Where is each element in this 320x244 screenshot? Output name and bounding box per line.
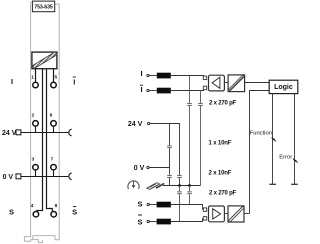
label S-bar (module) [72,207,77,217]
filter choke on I [157,73,171,79]
receiver input tab I [203,76,206,80]
svg-text:7: 7 [51,156,54,162]
wire: I-bar circle to filter [149,90,157,92]
node I terminal circle [147,74,149,76]
wire: 24V branch to 0V (1x10nF leg) [169,124,171,168]
svg-text:S: S [137,217,142,226]
wire: 0V leg down to shield rail [169,168,171,186]
node 0V terminal circle [147,166,149,168]
svg-text:24 V: 24 V [128,121,143,128]
capacitor C 270pF on S column [187,192,192,194]
terminal 8 [51,203,58,217]
wire: S filter to transmitter [171,205,203,210]
wire: block to terminal 5 [53,69,55,83]
wire: 0V to branch leg [149,167,169,169]
isolator U2 (galvanic isolation) [228,75,245,92]
wire: S-bar circle to filter [150,221,157,223]
svg-text:0 V: 0 V [3,174,14,181]
svg-text:2 x 10nF: 2 x 10nF [209,170,232,176]
24V power jumper contact [69,129,72,136]
svg-text:Function: Function [250,130,272,136]
wire: isolator output to Logic return [244,213,250,215]
svg-text:Logic: Logic [274,84,293,91]
capacitor column from I (270pF) [189,76,191,186]
wire: I filter to receiver [171,76,204,78]
node S terminal circle [147,203,149,205]
wire: shield rail [163,185,201,187]
svg-text:6: 6 [50,113,53,119]
wire: S-bar filter to transmitter [171,218,203,221]
svg-text:2: 2 [32,113,35,119]
wire: right pass-through (block to terminal 8) [47,69,53,212]
svg-text:753-635: 753-635 [34,4,53,10]
transmitter input tab S [203,208,206,212]
svg-text:5: 5 [54,74,57,80]
wire: I circle to filter [149,75,157,77]
terminal 4 [31,203,39,217]
svg-text:I: I [11,77,13,86]
chassis / shield symbol [147,183,164,190]
contact bar Error column [291,183,298,185]
wire: isolator to Logic [245,82,270,84]
Logic block [269,80,298,93]
capacitor column from I-bar (270pF) [200,91,202,186]
terminal 7 [51,156,57,176]
filter choke on S [157,202,171,208]
LED Error light arrows [293,158,298,162]
wire: receiver to isolator [224,82,228,84]
transmitter U3 (RS-485 driver) [209,206,225,222]
svg-text:1 x 10nF: 1 x 10nF [209,140,232,146]
transmitter input tab S-bar [203,217,206,221]
terminal 3 [32,156,39,176]
node I-bar terminal circle [147,89,149,91]
wire: 0V bus (module) [21,176,68,178]
filter choke on I-bar [157,88,171,94]
capacitor column shield to S (270pF) [189,186,191,205]
wire: 24V bus (module) [21,132,68,134]
capacitor C 270pF on I-bar column [198,104,203,106]
0V power jumper contact [69,173,72,180]
wire: Logic to S-channel isolator (return path) [250,91,270,214]
0V field terminal square [16,174,21,179]
svg-text:0 V: 0 V [134,165,145,172]
wire: 24V rail [150,124,180,186]
capacitor C 270pF on S-bar column [177,192,182,194]
terminal 1 [31,74,38,87]
filter choke on S-bar [157,219,171,225]
junction dot shield/0V leg [188,184,191,187]
svg-text:8: 8 [55,203,58,209]
receiver input tab I-bar [203,86,206,90]
terminal 5 [51,74,58,87]
svg-text:I: I [140,85,142,94]
terminal 6 [50,113,57,133]
svg-text:24 V: 24 V [2,130,17,137]
wire: transmitter to isolator [224,213,228,215]
LED Function light arrows [271,137,276,141]
svg-text:2 x 270 pF: 2 x 270 pF [209,191,237,197]
capacitor C 270pF on I column [187,104,192,106]
wire: left pass-through (block to terminal 4) [37,69,43,212]
svg-text:2 x 270 pF: 2 x 270 pF [209,100,237,106]
capacitor 10nF 0V-to-shield [167,176,172,178]
label I-bar (schematic) [140,85,143,94]
wire: I-bar filter to receiver [171,88,204,91]
wire: S circle to filter [150,204,157,206]
junction dot shield/24V leg [178,184,181,187]
receiver U1 (RS-485 input amplifier) [209,75,225,91]
LED column Function [272,94,274,185]
label S-bar (schematic) [137,215,142,226]
contact bar Function column [269,183,276,185]
capacitor 10nF 24V-to-shield [177,176,182,178]
svg-text:3: 3 [32,156,35,162]
terminal 2 [32,113,39,133]
svg-text:4: 4 [31,203,34,209]
module order label 753-635 [32,1,54,12]
wire: block to terminal 1 [35,69,37,83]
capacitor column shield to S-bar (270pF) [179,186,181,222]
module outline with DIN-rail foot [24,2,59,242]
isolator U4 (galvanic isolation) [228,206,244,222]
power supply block (module electronics) [32,52,57,69]
LED column Error [294,94,296,185]
svg-text:1: 1 [31,74,34,80]
svg-text:S: S [9,208,14,217]
svg-text:I: I [73,78,75,87]
24V field terminal square [16,130,21,135]
svg-text:S: S [137,200,142,209]
functional earth symbol [128,181,139,189]
node 24V terminal circle [148,122,150,124]
node S-bar terminal circle [147,220,149,222]
svg-text:I: I [140,69,142,78]
svg-text:Error: Error [279,155,292,161]
svg-text:S: S [72,208,77,217]
label I-bar (module) [73,77,76,87]
capacitor 1 x 10nF 24V-to-0V [167,146,172,148]
